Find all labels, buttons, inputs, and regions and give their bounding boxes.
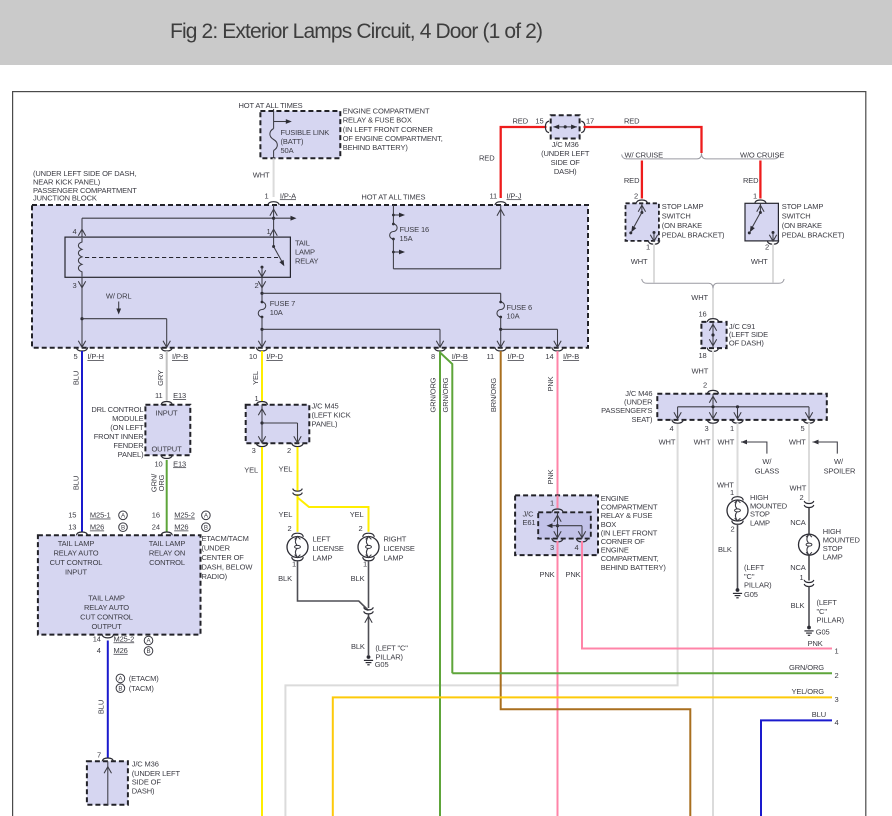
svg-text:GRN/ORG: GRN/ORG: [429, 377, 438, 412]
lamp RIGHT LICENSE LAMP: [358, 524, 415, 568]
svg-text:BLU: BLU: [72, 476, 81, 490]
pin 18 connector: [698, 348, 718, 360]
svg-text:W/ CRUISE: W/ CRUISE: [625, 151, 664, 160]
J/C M46 location note: [601, 389, 653, 424]
svg-text:1: 1: [266, 227, 270, 236]
svg-text:OUTPUT: OUTPUT: [151, 445, 182, 454]
pin 3 I/P-B connector: [159, 347, 188, 361]
pin 1 connector: [730, 420, 743, 433]
pin 11 E13 connector: [155, 391, 186, 405]
junction connector J/C M45: [246, 394, 310, 455]
junction connector J/C M46: [657, 394, 827, 420]
svg-text:LAMP: LAMP: [295, 247, 315, 256]
svg-text:GRY: GRY: [156, 370, 165, 386]
svg-text:2: 2: [634, 191, 638, 200]
svg-text:16: 16: [152, 511, 160, 520]
svg-text:(TACM): (TACM): [129, 684, 155, 693]
svg-text:HOT AT ALL TIMES: HOT AT ALL TIMES: [361, 193, 425, 202]
svg-text:1: 1: [835, 647, 839, 656]
svg-text:ETACM/TACM: ETACM/TACM: [202, 534, 249, 543]
svg-text:10: 10: [249, 352, 257, 361]
wire BLK right license lamp to G05: [351, 560, 374, 655]
svg-text:M25-1: M25-1: [90, 511, 111, 520]
svg-text:2: 2: [835, 671, 839, 680]
wire relay pin 2 through FUSE 7 to I/P-D: [258, 277, 266, 347]
J/C M36 (lower) location note: [132, 760, 181, 796]
svg-text:BEHIND BATTERY): BEHIND BATTERY): [601, 563, 667, 572]
svg-text:STOP LAMP: STOP LAMP: [662, 202, 704, 211]
W/ SPOILER option pointer: [813, 440, 857, 476]
svg-text:TAIL LAMP: TAIL LAMP: [58, 539, 95, 548]
svg-text:PNK: PNK: [546, 376, 555, 391]
stop lamp switch (left) location note: [662, 202, 725, 240]
wire PNK E61 pin 3 to bottom: [539, 541, 557, 816]
svg-text:3: 3: [72, 281, 76, 290]
svg-text:DRL CONTROL: DRL CONTROL: [91, 405, 143, 414]
wire BLK high mounted stop lamp to G05: [718, 524, 738, 589]
ground G05 (w/ spoiler lamp): [804, 626, 829, 637]
svg-text:SWITCH: SWITCH: [662, 211, 691, 220]
pin 3 connector: [704, 420, 718, 433]
svg-text:YEL: YEL: [350, 510, 364, 519]
svg-text:PNK: PNK: [565, 570, 580, 579]
svg-text:YEL/ORG: YEL/ORG: [791, 687, 824, 696]
svg-text:1: 1: [254, 394, 258, 403]
svg-text:BLK: BLK: [791, 601, 805, 610]
svg-text:1: 1: [550, 499, 554, 508]
svg-text:PANEL): PANEL): [312, 419, 338, 428]
pin 14 M25-2 / 4 M26 connector: [93, 634, 153, 655]
svg-text:PNK: PNK: [808, 639, 823, 648]
svg-text:1: 1: [753, 191, 757, 200]
svg-text:WHT: WHT: [691, 367, 708, 376]
svg-text:RELAY: RELAY: [295, 256, 319, 265]
svg-text:YEL: YEL: [278, 510, 292, 519]
svg-text:RED: RED: [513, 116, 529, 125]
wire PNK from I/P-B pin 14 to E61 pin 1: [546, 351, 558, 495]
svg-text:3: 3: [252, 446, 256, 455]
wire YEL I/P-D to M45 pin 1: [251, 351, 262, 401]
svg-text:5: 5: [73, 352, 77, 361]
pin 1 I/P-A connector: [264, 191, 296, 205]
svg-text:BLU: BLU: [97, 700, 106, 714]
switch S2 STOP LAMP SWITCH (W/O CRUISE): [745, 203, 779, 251]
svg-text:(ON BRAKE: (ON BRAKE: [782, 221, 822, 230]
svg-text:7: 7: [97, 751, 101, 760]
svg-text:(ON LEFT: (ON LEFT: [110, 423, 144, 432]
wire RED to stop lamp switch (W/O CRUISE): [743, 161, 766, 204]
svg-text:1: 1: [646, 243, 650, 252]
pin 15 M25-1 / 13 M26 connector: [68, 511, 127, 536]
svg-text:10A: 10A: [270, 308, 283, 317]
wire WHT stop lamp switch 1 output: [631, 244, 654, 283]
switch S1 STOP LAMP SWITCH (W/ CRUISE): [626, 203, 660, 251]
svg-text:J/C M36: J/C M36: [132, 760, 159, 769]
svg-text:14: 14: [545, 352, 553, 361]
svg-text:8: 8: [431, 352, 435, 361]
svg-text:TAIL LAMP: TAIL LAMP: [88, 594, 125, 603]
wire BLU ETACM output to J/C M36 pin 7: [97, 641, 108, 759]
engine compartment relay &amp; fuse box (outer) with J/C E61: [515, 495, 598, 555]
wire WHT fusible link to I/P-A: [273, 158, 275, 197]
wire relay pin 2 branch through FUSE 6: [262, 293, 504, 347]
svg-text:RELAY AUTO: RELAY AUTO: [53, 548, 98, 557]
pin 7 connector at J/C M36: [97, 751, 114, 762]
pin 2 connector at M46: [703, 380, 719, 394]
svg-text:I/P-D: I/P-D: [508, 352, 525, 361]
svg-text:RED: RED: [624, 116, 640, 125]
engine compartment relay &amp; fuse box location note: [601, 494, 667, 572]
wire RED J/C M36 pin 17 to cruise option split: [584, 116, 702, 153]
svg-text:PILLAR): PILLAR): [817, 615, 845, 624]
svg-text:CENTER OF: CENTER OF: [202, 553, 245, 562]
svg-text:SPOILER: SPOILER: [824, 466, 856, 475]
pin 11 I/P-D connector: [486, 347, 524, 361]
wire BLU to connector 4: [761, 710, 839, 816]
svg-text:PILLAR): PILLAR): [744, 581, 772, 590]
DRL control module location note: [91, 405, 144, 459]
svg-text:3: 3: [550, 543, 554, 552]
pin 10 I/P-D connector: [249, 347, 284, 361]
svg-text:G05: G05: [744, 590, 758, 599]
svg-text:5: 5: [800, 424, 804, 433]
stop lamp switch (right) location note: [782, 202, 845, 240]
junction connector J/C M36 (upper): [551, 115, 580, 138]
svg-text:WHT: WHT: [691, 293, 708, 302]
option merge brace to common WHT: [642, 279, 784, 302]
lamp LEFT LICENSE LAMP: [287, 524, 344, 568]
svg-text:(LEFT: (LEFT: [744, 563, 765, 572]
wire BLK spoiler lamp to G05: [791, 587, 809, 626]
wire WHT M46 pin 4 to bottom left: [285, 423, 677, 816]
pin 1 connector at E61: [550, 499, 563, 513]
svg-text:1: 1: [363, 560, 367, 569]
svg-text:W/: W/: [762, 457, 772, 466]
svg-text:FUSIBLE LINK: FUSIBLE LINK: [281, 128, 330, 137]
DRL control module U1: [145, 405, 190, 455]
wire fuse 7 branch to I/P-B pin 8: [262, 329, 444, 347]
wire GRN/ORG E13 pin 10 to ETACM pin 16/24: [150, 460, 167, 532]
wire WHT stop lamp switch 2 output: [751, 244, 773, 283]
svg-text:WHT: WHT: [253, 171, 270, 180]
svg-text:WHT: WHT: [789, 438, 806, 447]
module ETACM/TACM tail lamp relay control: [38, 535, 201, 634]
svg-text:W/ DRL: W/ DRL: [106, 292, 132, 301]
wire W/ DRL branch to I/P-B: [82, 319, 170, 348]
legend circled B (TACM): [116, 684, 154, 693]
svg-text:OF DASH): OF DASH): [729, 338, 764, 347]
svg-text:W/: W/: [834, 457, 844, 466]
svg-text:PASSENGER'S: PASSENGER'S: [601, 406, 652, 415]
svg-text:RED: RED: [743, 176, 759, 185]
svg-text:BLU: BLU: [72, 371, 81, 385]
wire YEL M45 pin 3 to bottom: [244, 447, 262, 816]
svg-text:GLASS: GLASS: [755, 466, 780, 475]
svg-text:NCA: NCA: [790, 563, 806, 572]
svg-text:WHT: WHT: [789, 483, 806, 492]
svg-text:2: 2: [765, 243, 769, 252]
svg-text:(ETACM): (ETACM): [129, 674, 159, 683]
W/ GLASS option pointer: [741, 440, 779, 476]
svg-text:BLK: BLK: [351, 642, 365, 651]
lamp HIGH MOUNTED STOP LAMP (W/ GLASS): [727, 493, 788, 527]
pin 4 connector: [669, 420, 683, 433]
wire from HOT AT ALL TIMES into fusible link box: [273, 109, 275, 129]
svg-text:16: 16: [698, 310, 706, 319]
svg-text:WHT: WHT: [694, 438, 711, 447]
left C pillar note (w/ spoiler lamp): [817, 598, 845, 624]
wire GRY I/P-B to E13 pin 11: [156, 351, 167, 401]
svg-text:2: 2: [730, 525, 734, 534]
wire YEL/ORG to connector 3: [333, 687, 839, 816]
svg-text:I/P-D: I/P-D: [266, 352, 283, 361]
wire WHT C91 pin 18 to J/C M46 pin 2: [691, 351, 713, 391]
svg-text:11: 11: [155, 391, 163, 400]
svg-text:(IN LEFT FRONT CORNER: (IN LEFT FRONT CORNER: [343, 125, 434, 134]
svg-text:INPUT: INPUT: [156, 408, 178, 417]
svg-text:J/C M36: J/C M36: [552, 140, 579, 149]
svg-text:WHT: WHT: [631, 257, 648, 266]
svg-text:2: 2: [254, 281, 258, 290]
svg-text:4: 4: [669, 424, 673, 433]
wire GRN/ORG pair from I/P-B pin 8: [429, 351, 453, 816]
svg-text:13: 13: [68, 523, 76, 532]
junction connector J/C M36 (lower): [87, 761, 128, 805]
svg-text:PEDAL BRACKET): PEDAL BRACKET): [782, 231, 845, 240]
svg-text:G05: G05: [816, 628, 830, 637]
svg-text:4: 4: [835, 718, 839, 727]
svg-text:RADIO): RADIO): [202, 572, 228, 581]
svg-text:RIGHT: RIGHT: [384, 535, 407, 544]
fusible link FL (BATT) 50A: [260, 111, 340, 158]
svg-text:ENGINE COMPARTMENT: ENGINE COMPARTMENT: [343, 107, 430, 116]
wire PNK E61 pin 4 to connector 1: [565, 541, 838, 656]
svg-text:CONTROL: CONTROL: [149, 558, 185, 567]
svg-text:JUNCTION BLOCK: JUNCTION BLOCK: [33, 194, 97, 203]
lamp HIGH MOUNTED STOP LAMP (W/ SPOILER): [799, 527, 861, 562]
wire BRN/ORG from I/P-D pin 11: [489, 351, 690, 816]
svg-text:M26: M26: [174, 523, 188, 532]
wire I/P-A feed inside junction block: [78, 205, 296, 237]
svg-text:14: 14: [93, 634, 101, 643]
svg-text:4: 4: [574, 543, 578, 552]
svg-text:4: 4: [72, 227, 76, 236]
svg-text:NCA: NCA: [790, 518, 806, 527]
engine compartment relay &amp; fuse box location note: [343, 107, 443, 153]
svg-text:W/O CRUISE: W/O CRUISE: [740, 150, 784, 159]
svg-text:MODULE: MODULE: [112, 414, 143, 423]
svg-text:50A: 50A: [281, 146, 294, 155]
svg-text:RED: RED: [479, 153, 495, 162]
svg-text:M26: M26: [90, 523, 104, 532]
svg-text:DASH, BELOW: DASH, BELOW: [202, 563, 254, 572]
svg-text:24: 24: [152, 523, 160, 532]
svg-text:ORG: ORG: [157, 474, 166, 491]
svg-text:CUT CONTROL: CUT CONTROL: [80, 613, 133, 622]
fuse F6 FUSE 6 10A: [507, 303, 533, 321]
pin 16 M25-2 / 24 M26 connector: [152, 511, 210, 536]
svg-text:BRN/ORG: BRN/ORG: [489, 378, 498, 412]
svg-text:BLK: BLK: [278, 574, 292, 583]
svg-text:17: 17: [586, 116, 594, 125]
svg-text:(ON BRAKE: (ON BRAKE: [662, 221, 702, 230]
svg-text:HOT AT ALL TIMES: HOT AT ALL TIMES: [239, 101, 303, 110]
svg-text:GRN/ORG: GRN/ORG: [441, 377, 450, 412]
legend circled A (ETACM): [116, 674, 159, 683]
svg-text:E13: E13: [173, 391, 186, 400]
wire BLU I/P-H to ETACM pin 15/13: [72, 351, 83, 532]
svg-text:STOP LAMP: STOP LAMP: [782, 202, 824, 211]
wire RED to stop lamp switch (W/ CRUISE): [624, 161, 648, 204]
svg-text:INPUT: INPUT: [65, 567, 87, 576]
ground G05 (license lamps): [364, 655, 389, 669]
svg-text:SWITCH: SWITCH: [782, 211, 811, 220]
svg-text:(UNDER LEFT SIDE OF DASH,: (UNDER LEFT SIDE OF DASH,: [33, 169, 137, 178]
pin 2 break (W/ SPOILER): [799, 493, 813, 508]
svg-text:RELAY AUTO: RELAY AUTO: [84, 603, 129, 612]
wire GRN/ORG to connector 2: [452, 663, 838, 680]
svg-text:DASH): DASH): [554, 167, 577, 176]
svg-text:E61: E61: [523, 518, 536, 527]
node W/ DRL: [106, 292, 132, 315]
svg-text:LICENSE: LICENSE: [313, 544, 344, 553]
svg-text:2: 2: [703, 380, 707, 389]
svg-text:WHT: WHT: [751, 257, 768, 266]
pin 15 connector: [535, 116, 549, 132]
svg-text:FENDER: FENDER: [113, 441, 144, 450]
svg-text:1: 1: [292, 560, 296, 569]
svg-text:SIDE OF: SIDE OF: [551, 158, 581, 167]
left C pillar note (w/ glass lamp): [744, 563, 772, 589]
J/C M45 location note: [312, 402, 351, 429]
svg-text:RELAY & FUSE BOX: RELAY & FUSE BOX: [343, 116, 412, 125]
wire I/P-J feed joining fuse 16 output: [497, 205, 504, 269]
fuse F7 FUSE 7 10A: [270, 299, 296, 317]
svg-text:(UNDER LEFT: (UNDER LEFT: [541, 149, 590, 158]
svg-text:4: 4: [97, 646, 101, 655]
svg-text:PEDAL BRACKET): PEDAL BRACKET): [662, 231, 725, 240]
svg-text:15A: 15A: [400, 234, 413, 243]
svg-text:1: 1: [730, 488, 734, 497]
svg-text:LICENSE: LICENSE: [384, 544, 415, 553]
svg-text:3: 3: [704, 424, 708, 433]
svg-text:11: 11: [486, 352, 494, 361]
wire WHT M46 pin 1 to high mounted stop lamp (W/ GLASS): [717, 423, 738, 497]
wire YEL M45 pin 2 to license lamps: [278, 447, 368, 532]
pin 1 connector high mounted stop lamp (W/ GLASS): [730, 488, 743, 500]
svg-text:BEHIND BATTERY): BEHIND BATTERY): [343, 143, 409, 152]
pin 17 connector: [581, 116, 594, 132]
svg-text:FUSE 16: FUSE 16: [400, 225, 430, 234]
svg-text:DASH): DASH): [132, 786, 155, 795]
svg-text:I/P-A: I/P-A: [280, 191, 296, 200]
svg-text:YEL: YEL: [278, 465, 292, 474]
wire relay pin 3 to I/P-H with W/ DRL branch: [78, 277, 85, 347]
passenger compartment junction block: [32, 205, 588, 348]
wire WHT M46 pin 3 to bottom: [694, 423, 713, 816]
ETACM/TACM location note: [202, 534, 254, 581]
option split brace W/ CRUISE vs W/O CRUISE: [622, 150, 785, 159]
svg-text:1: 1: [264, 191, 268, 200]
svg-text:RELAY ON: RELAY ON: [149, 548, 185, 557]
relay K1 TAIL LAMP RELAY: [65, 237, 319, 277]
svg-text:I/P-J: I/P-J: [507, 191, 522, 200]
svg-text:PNK: PNK: [546, 469, 555, 484]
pin 8 I/P-B connector: [431, 347, 468, 361]
svg-text:GRN/ORG: GRN/ORG: [789, 663, 824, 672]
pin 2 connector: [730, 521, 743, 534]
svg-text:18: 18: [698, 351, 706, 360]
svg-text:2: 2: [799, 493, 803, 502]
J/C M36 (upper) location note: [541, 140, 590, 176]
svg-text:3: 3: [835, 695, 839, 704]
svg-text:YEL: YEL: [244, 465, 258, 474]
pin 14 I/P-B connector: [545, 347, 579, 361]
svg-text:OF ENGINE COMPARTMENT,: OF ENGINE COMPARTMENT,: [343, 134, 443, 143]
svg-text:Fig 2: Exterior Lamps Circuit,: Fig 2: Exterior Lamps Circuit, 4 Door (1…: [170, 20, 543, 43]
J/C C91 location note: [729, 322, 768, 348]
svg-text:PNK: PNK: [539, 570, 554, 579]
svg-text:10: 10: [154, 459, 162, 468]
fuse F16 FUSE 16 15A with feed: [390, 205, 501, 269]
svg-text:I/P-H: I/P-H: [87, 352, 103, 361]
wire NCA lamp to pin 1 break: [790, 555, 814, 586]
pin 10 E13 connector: [154, 455, 186, 468]
svg-text:2: 2: [287, 446, 291, 455]
svg-text:J/C M45: J/C M45: [312, 402, 339, 411]
junction connector J/C C91: [701, 322, 726, 348]
svg-text:FRONT INNER: FRONT INNER: [94, 432, 144, 441]
svg-text:G05: G05: [375, 660, 389, 669]
passenger compartment junction block location note: [33, 169, 137, 203]
wire RED I/P-J to J/C M36 pin 15: [479, 116, 546, 198]
svg-text:3: 3: [159, 352, 163, 361]
svg-text:(LEFT "C": (LEFT "C": [375, 644, 408, 653]
junction connector J/C E61 (inner box): [538, 512, 591, 552]
svg-text:FUSE 7: FUSE 7: [270, 299, 296, 308]
pin 11 I/P-J connector: [489, 191, 521, 205]
svg-text:E13: E13: [173, 459, 186, 468]
svg-text:I/P-B: I/P-B: [563, 352, 579, 361]
svg-text:BLK: BLK: [718, 545, 732, 554]
svg-text:(BATT): (BATT): [281, 137, 305, 146]
svg-text:2: 2: [358, 524, 362, 533]
svg-text:I/P-B: I/P-B: [172, 352, 188, 361]
svg-text:15: 15: [535, 116, 543, 125]
wire BLK left license lamp to ground splice: [278, 560, 368, 611]
svg-text:RED: RED: [624, 176, 640, 185]
svg-text:LAMP: LAMP: [750, 518, 770, 527]
svg-text:SEAT): SEAT): [631, 415, 653, 424]
svg-text:1: 1: [799, 573, 803, 582]
pin 16 connector: [698, 310, 718, 323]
svg-text:(LEFT KICK: (LEFT KICK: [312, 411, 351, 420]
svg-text:I/P-B: I/P-B: [452, 352, 468, 361]
svg-text:M26: M26: [114, 646, 128, 655]
svg-text:LAMP: LAMP: [384, 554, 404, 563]
svg-text:LAMP: LAMP: [823, 553, 843, 562]
svg-text:LEFT: LEFT: [313, 535, 331, 544]
svg-text:10A: 10A: [507, 311, 520, 320]
wire WHT M46 pin 5 (W/ SPOILER): [789, 423, 809, 502]
wire NCA to high mounted stop lamp (W/ SPOILER): [790, 507, 809, 534]
svg-text:YEL: YEL: [251, 371, 260, 385]
wire WHT merge to J/C C91 pin 16: [712, 289, 714, 318]
title bar: [0, 0, 892, 65]
svg-text:BLK: BLK: [351, 574, 365, 583]
ground G05 (w/ glass lamp): [733, 588, 758, 599]
svg-text:M25-2: M25-2: [114, 634, 135, 643]
